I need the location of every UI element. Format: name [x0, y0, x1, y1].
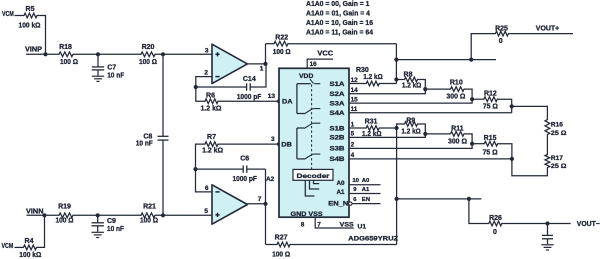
- node C9 junction: [96, 213, 100, 217]
- svg-text:5: 5: [204, 208, 208, 215]
- svg-text:2: 2: [351, 142, 355, 149]
- node S4B junction: [510, 157, 514, 161]
- svg-text:S2B: S2B: [330, 135, 345, 142]
- svg-text:A1A0 = 01, Gain = 4: A1A0 = 01, Gain = 4: [306, 9, 371, 18]
- resistor R4: [24, 245, 37, 250]
- node VOUT- tap: [467, 197, 471, 201]
- resistor R17: [545, 155, 550, 168]
- svg-text:R15: R15: [484, 135, 497, 142]
- svg-text:13: 13: [268, 93, 276, 100]
- decoder to A0 wire: [314, 180, 320, 183]
- svg-text:R4: R4: [25, 238, 34, 245]
- ground (C9): [92, 231, 104, 233]
- svg-text:R17: R17: [551, 155, 563, 162]
- wire A1 output to rail: [265, 44, 267, 64]
- svg-text:DB: DB: [281, 142, 292, 149]
- wire tap to R16: [512, 106, 548, 119]
- mux DB bracket: [296, 128, 298, 159]
- svg-text:A2: A2: [266, 176, 275, 183]
- svg-text:12: 12: [351, 77, 359, 84]
- svg-text:R25: R25: [495, 25, 508, 32]
- op-amp A2: [212, 185, 247, 224]
- node S3A junction: [470, 97, 474, 101]
- decoder block: [293, 169, 333, 180]
- svg-text:VINN: VINN: [26, 208, 44, 215]
- svg-text:R9: R9: [406, 118, 415, 125]
- multiplexer U1 ADG659YRUZ body: [279, 68, 349, 217]
- capacitor C9: [97, 215, 99, 222]
- node VOUT+ tap: [469, 58, 473, 62]
- svg-text:25 Ω: 25 Ω: [551, 163, 567, 170]
- svg-text:VINP: VINP: [25, 46, 42, 53]
- wire pin 10 A0: [349, 184, 381, 186]
- node A1 output: [263, 62, 267, 66]
- svg-text:R21: R21: [143, 204, 156, 211]
- svg-text:S4B: S4B: [330, 156, 345, 163]
- svg-text:1.2 kΩ: 1.2 kΩ: [363, 74, 383, 81]
- node R16 tap: [510, 104, 514, 108]
- node R31/R9 junction: [395, 126, 399, 130]
- svg-text:5: 5: [351, 131, 355, 138]
- svg-text:6: 6: [205, 185, 209, 192]
- svg-text:R27: R27: [275, 234, 288, 241]
- svg-text:A1: A1: [362, 187, 370, 193]
- switch S4A arm: [304, 109, 313, 114]
- node S2A junction: [423, 87, 427, 91]
- resistor R7: [196, 144, 206, 169]
- wire R18 to C7 node: [73, 53, 98, 55]
- capacitor C7: [97, 54, 99, 66]
- ground (C7): [92, 75, 104, 77]
- node top rail junction: [394, 58, 398, 62]
- svg-text:VDD: VDD: [299, 73, 314, 80]
- svg-text:100 kΩ: 100 kΩ: [19, 252, 41, 259]
- node A1 feedback junction: [194, 85, 198, 89]
- svg-text:10: 10: [352, 178, 359, 184]
- capacitor C14: [196, 86, 247, 88]
- decoder to A1 wire: [310, 180, 320, 189]
- svg-text:A1: A1: [336, 189, 345, 196]
- wire R26 to VOUT-: [502, 223, 571, 225]
- svg-text:75 Ω: 75 Ω: [483, 104, 498, 111]
- svg-text:C9: C9: [107, 218, 116, 225]
- pin 7 VSS: [315, 217, 354, 228]
- op-amp A1: [212, 44, 247, 83]
- svg-text:100 kΩ: 100 kΩ: [19, 22, 41, 29]
- wire top node vertical: [395, 44, 397, 84]
- svg-text:100 Ω: 100 Ω: [56, 218, 74, 225]
- wire R21 to op-amp A2 pin 5: [155, 214, 212, 216]
- wire A1 pin2 feedback: [196, 77, 212, 87]
- wire pin 9 A1: [349, 193, 381, 195]
- wire tap to R25: [471, 34, 495, 60]
- resistor R27: [266, 244, 278, 246]
- svg-text:1.2 kΩ: 1.2 kΩ: [401, 129, 421, 136]
- resistor R31: [349, 127, 366, 129]
- svg-text:25 Ω: 25 Ω: [551, 130, 567, 137]
- svg-text:4: 4: [351, 152, 355, 159]
- capacitor C6: [196, 168, 244, 170]
- svg-text:100 Ω: 100 Ω: [139, 59, 157, 66]
- ground (VOUT- filter): [541, 244, 553, 246]
- svg-text:10 nF: 10 nF: [136, 141, 154, 148]
- wire S3A pin 15: [349, 99, 472, 103]
- resistor R6: [196, 87, 205, 101]
- wire VINN: [27, 214, 60, 216]
- svg-text:S1B: S1B: [330, 125, 345, 132]
- svg-text:100 Ω: 100 Ω: [60, 59, 78, 66]
- wire VOUT- rail: [397, 198, 482, 200]
- svg-text:R11: R11: [451, 125, 464, 132]
- svg-text:7: 7: [258, 196, 262, 203]
- wire C7 to R20: [98, 53, 141, 55]
- resistor R22: [266, 43, 275, 45]
- wire VCM to R4: [15, 246, 24, 248]
- svg-text:VCM: VCM: [2, 243, 14, 250]
- svg-text:7: 7: [317, 221, 321, 228]
- svg-text:C7: C7: [107, 65, 116, 72]
- wire C6/output vertical: [265, 169, 267, 244]
- svg-text:R12: R12: [484, 90, 497, 97]
- svg-text:A0: A0: [362, 178, 370, 184]
- svg-text:R8: R8: [404, 72, 413, 79]
- svg-text:A0: A0: [336, 180, 345, 187]
- wire pin 6 EN: [352, 203, 380, 205]
- svg-text:R7: R7: [207, 134, 216, 141]
- svg-text:R18: R18: [59, 44, 72, 51]
- svg-text:DA: DA: [282, 98, 293, 105]
- node R30/R8 tap: [394, 77, 398, 81]
- svg-text:1000 pF: 1000 pF: [237, 94, 262, 101]
- node VOUT- rail junction: [395, 197, 399, 201]
- svg-text:Decoder: Decoder: [297, 173, 331, 180]
- svg-text:S3A: S3A: [330, 100, 345, 107]
- svg-text:R16: R16: [551, 122, 563, 129]
- switch S4B arm: [304, 154, 313, 159]
- wire VCM to R5: [15, 15, 25, 17]
- resistor R5: [24, 13, 37, 18]
- resistor R21: [141, 213, 155, 218]
- resistor R11: [425, 133, 450, 135]
- resistor R9: [397, 124, 405, 128]
- wire VINP: [26, 53, 59, 55]
- svg-text:R30: R30: [356, 67, 369, 74]
- svg-text:0: 0: [499, 38, 503, 45]
- capacitor (VOUT- filter): [547, 224, 549, 235]
- wire A1 output: [247, 63, 265, 65]
- svg-text:R26: R26: [489, 215, 502, 222]
- node S3B junction: [470, 142, 474, 146]
- svg-text:R6: R6: [206, 93, 215, 100]
- svg-text:8: 8: [301, 221, 305, 228]
- wire S4B pin 4: [349, 158, 512, 160]
- wire A2 output: [247, 203, 265, 205]
- svg-text:C6: C6: [240, 155, 249, 162]
- svg-text:S4A: S4A: [330, 110, 345, 117]
- node A2 feedback junction: [193, 167, 197, 171]
- node A2 output: [263, 202, 267, 206]
- decoder to EN wire: [305, 180, 314, 196]
- control line (dashed): [311, 85, 313, 170]
- resistor R25: [495, 31, 508, 36]
- svg-text:1.2 kΩ: 1.2 kΩ: [201, 106, 222, 113]
- wire R19 to C9 node: [73, 214, 98, 216]
- svg-text:S2A: S2A: [330, 91, 345, 98]
- svg-text:S3B: S3B: [330, 146, 345, 153]
- wire VOUT+ rail: [396, 59, 496, 61]
- svg-text:100 Ω: 100 Ω: [272, 251, 290, 258]
- wire R17 return to S4B node: [512, 159, 548, 176]
- wire R16 to R17: [546, 135, 548, 155]
- svg-text:300 Ω: 300 Ω: [446, 94, 465, 101]
- svg-text:1.2 kΩ: 1.2 kΩ: [402, 83, 422, 90]
- wire tap to R26: [469, 199, 489, 224]
- resistor R20: [141, 52, 155, 57]
- wire A2 pin6 feedback: [196, 169, 213, 192]
- svg-text:R22: R22: [275, 34, 288, 41]
- svg-text:100 Ω: 100 Ω: [273, 49, 291, 56]
- svg-text:EN_N: EN_N: [328, 200, 349, 207]
- svg-text:10 nF: 10 nF: [107, 226, 125, 233]
- svg-text:R5: R5: [26, 6, 35, 13]
- svg-text:A1A0 = 11, Gain = 64: A1A0 = 11, Gain = 64: [306, 27, 374, 36]
- svg-text:300 Ω: 300 Ω: [448, 139, 467, 146]
- svg-text:VCM: VCM: [2, 11, 14, 18]
- wire R20 to op-amp A1 pin 3: [155, 53, 212, 55]
- svg-text:3: 3: [271, 136, 275, 143]
- svg-text:C8: C8: [143, 134, 152, 141]
- wire R25 to VOUT+: [508, 33, 573, 35]
- svg-text:VSS: VSS: [340, 222, 355, 229]
- node output cap junction: [545, 221, 549, 225]
- svg-text:A1A0 = 00, Gain = 1: A1A0 = 00, Gain = 1: [306, 0, 370, 8]
- resistor R19: [59, 213, 73, 218]
- svg-text:100 Ω: 100 Ω: [140, 218, 158, 225]
- wire R5 to VINP node: [37, 16, 46, 55]
- svg-text:3: 3: [205, 47, 209, 54]
- svg-text:VCC: VCC: [317, 50, 333, 57]
- svg-text:0: 0: [493, 229, 497, 236]
- svg-text:U1: U1: [358, 224, 367, 231]
- wire C9 to R21: [98, 214, 141, 216]
- wire S2B pin 5: [349, 134, 425, 138]
- wire bottom node vertical: [396, 128, 398, 245]
- resistor R10: [425, 88, 450, 90]
- wire S2A pin 14: [349, 89, 425, 94]
- svg-text:1000 pF: 1000 pF: [232, 176, 257, 183]
- resistor R30: [349, 83, 366, 85]
- resistor R12: [472, 98, 484, 100]
- node C7 junction: [96, 52, 100, 56]
- mux DA bracket: [296, 84, 298, 114]
- svg-text:15: 15: [351, 96, 359, 103]
- resistor R26: [489, 221, 502, 226]
- resistor R16: [545, 120, 550, 135]
- EN bubble: [349, 202, 352, 205]
- switch S1B arm: [304, 123, 313, 128]
- resistor R15: [472, 143, 484, 145]
- svg-text:VOUT+: VOUT+: [536, 23, 559, 32]
- svg-text:11: 11: [351, 106, 358, 113]
- svg-text:R19: R19: [58, 204, 71, 211]
- switch S1A arm (to VDD): [310, 79, 314, 84]
- svg-text:EN: EN: [362, 197, 370, 203]
- svg-text:2: 2: [204, 69, 208, 76]
- svg-text:1.2 kΩ: 1.2 kΩ: [202, 148, 223, 155]
- wire R4 to VINN node: [37, 215, 45, 247]
- svg-text:VOUT−: VOUT−: [577, 219, 600, 228]
- svg-text:75 Ω: 75 Ω: [483, 150, 498, 157]
- svg-text:16: 16: [310, 61, 318, 68]
- svg-text:10 nF: 10 nF: [107, 73, 125, 80]
- svg-text:R31: R31: [365, 119, 378, 126]
- wire S3B pin 2: [349, 144, 472, 149]
- svg-text:GND VSS: GND VSS: [291, 211, 324, 218]
- svg-text:S1A: S1A: [330, 81, 345, 88]
- svg-text:C14: C14: [243, 76, 256, 83]
- node S2B junction: [423, 132, 427, 136]
- svg-text:1: 1: [260, 65, 264, 72]
- resistor R18: [59, 52, 73, 57]
- svg-text:14: 14: [351, 87, 359, 94]
- resistor R8: [396, 79, 404, 81]
- svg-text:R20: R20: [142, 44, 155, 51]
- svg-text:A1A0 = 10, Gain = 16: A1A0 = 10, Gain = 16: [306, 18, 373, 27]
- wire S4A pin 11: [349, 112, 512, 114]
- svg-text:R10: R10: [450, 80, 463, 87]
- svg-text:ADG659YRUZ: ADG659YRUZ: [348, 235, 398, 242]
- svg-text:1: 1: [351, 121, 355, 128]
- capacitor C8: [162, 54, 164, 136]
